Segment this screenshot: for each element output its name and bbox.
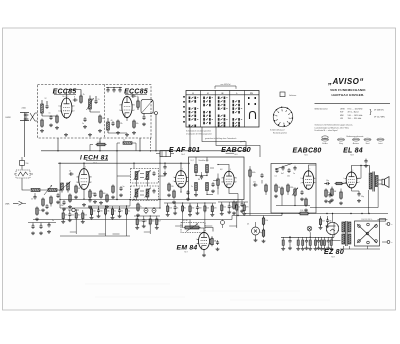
svg-text:47k: 47k [236, 204, 239, 206]
svg-text:0,1: 0,1 [275, 176, 277, 178]
wire vert x60 [59, 163, 61, 208]
push-button switch bank housing [186, 91, 259, 128]
svg-text:Rö 7: Rö 7 [184, 252, 187, 254]
mains terminals [382, 223, 393, 245]
capacitor C91 [260, 173, 263, 183]
ratio det secondary coil [206, 165, 209, 176]
capacitor C23 [93, 192, 97, 203]
resistor R3 (anode load) [80, 90, 85, 104]
oscillator coil L3 [107, 118, 110, 133]
svg-text:I: I [80, 154, 82, 161]
trimmer arrow L2 [87, 98, 94, 110]
cluster (detector load) [218, 201, 248, 228]
mains bottom wire [340, 246, 380, 249]
resistor R5 [116, 120, 123, 135]
ground row tuner [64, 133, 129, 136]
knob legend symbols [321, 136, 384, 145]
junction dots ratio det [195, 175, 218, 189]
svg-text:Band: Band [366, 143, 370, 145]
switch bank caption line2 [186, 133, 212, 136]
resistor R80 [211, 236, 217, 246]
svg-text:7: 7 [236, 182, 237, 184]
svg-text:1: 1 [173, 177, 174, 179]
electrolytic C40 [144, 207, 148, 214]
svg-text:zum UKW-Teil: zum UKW-Teil [220, 84, 231, 86]
cluster (IF decoupling) [134, 215, 161, 234]
resistor R100 [274, 184, 281, 198]
terminal circle (pickup) [68, 208, 79, 211]
B+ bus y163 [58, 162, 190, 164]
mains aerial series part [20, 157, 29, 170]
rotary wafer switch (rear view) [273, 106, 293, 126]
heater winding wire [333, 235, 341, 241]
wire pot out [205, 228, 213, 232]
junction component (x160) [156, 151, 174, 157]
wire switch down [22, 178, 30, 190]
AVC bus y219.5 [33, 219, 232, 221]
AF bus y208 left [60, 207, 160, 209]
svg-text:3n3: 3n3 [322, 221, 325, 223]
svg-text:EABC80: EABC80 [221, 145, 251, 154]
output transformer core [373, 172, 374, 192]
wire EL84 screen [357, 165, 369, 214]
padding capacitor C9 [111, 120, 115, 126]
svg-text:Rö 9: Rö 9 [331, 256, 334, 258]
resistor R6 [137, 97, 140, 111]
resistor R91 [265, 184, 268, 196]
svg-text:Rö 6: Rö 6 [304, 154, 307, 156]
svg-text:10,7: 10,7 [191, 160, 194, 162]
svg-text:6: 6 [74, 106, 75, 108]
cluster (PSU left column) [319, 216, 332, 229]
capacitor C34 [47, 223, 51, 234]
triode system ECC85a [58, 96, 75, 119]
svg-text:100: 100 [152, 221, 155, 223]
terminal circle x222 [221, 220, 225, 229]
tube ECH81 [76, 166, 92, 190]
capacitor C112 [328, 193, 332, 204]
tube label EL84 [343, 147, 363, 156]
RF trim capacitor C1 [45, 98, 49, 109]
svg-text:12k: 12k [265, 220, 268, 222]
junction dots misc [59, 163, 160, 209]
oscillator grid capacitor C10 [131, 93, 136, 98]
screen bypass [88, 198, 92, 209]
svg-text:1: 1 [58, 106, 59, 108]
svg-text:5n: 5n [123, 186, 125, 188]
title rule [315, 102, 391, 104]
wire sub-bus link [281, 214, 283, 216]
svg-text:ZF 10,7 MHz: ZF 10,7 MHz [374, 117, 385, 119]
switch bank contact sets [183, 96, 256, 127]
svg-text:7: 7 [316, 182, 317, 184]
svg-text:6: 6 [316, 178, 317, 180]
svg-text:10n: 10n [93, 211, 96, 213]
svg-text:2k: 2k [83, 94, 85, 96]
resistor R4 [98, 115, 105, 133]
svg-text:ECH 81: ECH 81 [83, 154, 108, 161]
tube label EAF801 [169, 147, 200, 156]
ratio det primary coil [195, 162, 198, 176]
rectifier tube EZ80 (socket view) [326, 213, 339, 235]
svg-text:10n: 10n [65, 215, 68, 217]
padder capacitor C22 [61, 200, 67, 211]
svg-text:MW: MW [340, 115, 344, 117]
frequency range table [315, 108, 385, 121]
svg-text:10n: 10n [326, 180, 329, 182]
ratio det coil D [206, 183, 209, 191]
output transformer secondary [375, 176, 378, 187]
wire terminal drop [155, 115, 157, 151]
resistor R111 [339, 189, 343, 205]
svg-text:5k: 5k [328, 192, 330, 194]
wire antenna down-lead [24, 121, 26, 158]
svg-text:2: 2 [173, 181, 174, 183]
svg-text:8n: 8n [184, 208, 186, 210]
capacitor C33 [39, 224, 43, 235]
B+ sub-bus y215.5 [232, 215, 282, 217]
svg-text:2n: 2n [82, 123, 84, 125]
svg-text:EABC80: EABC80 [292, 147, 321, 154]
svg-text:EZ 80: EZ 80 [324, 249, 344, 256]
tone capacitor C102 [287, 168, 291, 177]
svg-text:Lautstärkeregler auf Maximum,: Lautstärkeregler auf Maximum, 220 V Netz… [315, 126, 350, 129]
svg-text:5k: 5k [121, 211, 123, 213]
svg-text:D1: D1 [247, 224, 249, 226]
resistor R1 [40, 119, 44, 133]
coupling capacitor C110 [324, 180, 330, 185]
resistor R30 [41, 198, 45, 212]
svg-text:220: 220 [214, 208, 217, 210]
tone capacitor C101 [281, 166, 285, 175]
wire switch drop C [216, 127, 260, 157]
svg-text:22k: 22k [120, 123, 123, 125]
svg-text:Drucktaste M — ohne Signal: Drucktaste M — ohne Signal [315, 129, 338, 132]
antenna balun coil [30, 113, 38, 121]
tone potentiometer [292, 188, 298, 197]
svg-text:80: 80 [198, 179, 200, 181]
svg-text:470: 470 [246, 207, 249, 209]
junction dots B+ rail [281, 213, 369, 214]
power transformer core [346, 221, 347, 246]
svg-text:10n: 10n [253, 182, 256, 184]
voltage selector plate [355, 221, 380, 246]
svg-text:4n7: 4n7 [78, 215, 81, 217]
svg-text:3n3: 3n3 [84, 215, 87, 217]
triode system ECC85b [119, 94, 135, 118]
svg-text:1,2k: 1,2k [300, 210, 303, 212]
svg-text:EM 84: EM 84 [177, 244, 198, 251]
component cluster (osc tracking) [61, 209, 87, 234]
resistor R31 [50, 196, 53, 207]
svg-text:200: 200 [191, 208, 194, 210]
wire EAF cathode [180, 187, 181, 192]
loudspeaker [378, 177, 389, 188]
ferrite rod coil LA2 [40, 185, 62, 195]
svg-text:Bedienungselemente: Bedienungselemente [347, 135, 364, 138]
B+ rail y213.5 [245, 213, 388, 215]
tube label EABC80 (ratio det) [221, 145, 251, 156]
svg-text:5k: 5k [177, 208, 179, 210]
svg-text:Gehäuse: Gehäuse [289, 95, 296, 97]
cathode wire ECH81 [82, 189, 86, 206]
svg-text:510 … 1620 kHz: 510 … 1620 kHz [348, 115, 363, 117]
svg-text:VEB FUNKMECHANIK: VEB FUNKMECHANIK [330, 88, 366, 92]
grid capacitor C20 [69, 171, 74, 176]
svg-text:15: 15 [98, 99, 100, 101]
wire EAF801 anode [180, 163, 182, 171]
antenna coupling capacitors [24, 113, 29, 120]
svg-text:Rö 4: Rö 4 [181, 154, 184, 156]
maker line 1 [330, 88, 366, 92]
svg-text:Klang: Klang [339, 143, 343, 145]
wire EM84 feed [190, 220, 196, 229]
tube EL84 [343, 170, 359, 189]
svg-text:100k: 100k [139, 221, 143, 223]
capacitor C50 [163, 163, 167, 175]
svg-text:8: 8 [74, 97, 75, 99]
tube label EABC80 (AF amp) [292, 147, 321, 156]
svg-text:4n7: 4n7 [158, 221, 161, 223]
EABC80a wiring [217, 164, 238, 194]
wire EL84 anode [352, 166, 370, 173]
svg-text:EL 84: EL 84 [343, 147, 363, 154]
wire vert x232 [231, 216, 233, 220]
svg-text:Rö 2: Rö 2 [134, 96, 137, 98]
capacitor C2 [49, 113, 54, 127]
svg-text:30: 30 [131, 93, 133, 95]
svg-text:50µ: 50µ [259, 232, 262, 234]
capacitor C51 [186, 190, 190, 201]
wire ECH81 anode [83, 163, 85, 168]
resistor R20 [74, 185, 81, 199]
svg-text:1k: 1k [39, 210, 41, 212]
tube label EZ80 [324, 249, 344, 258]
svg-text:1: 1 [119, 105, 120, 107]
capacitor C94 [240, 200, 244, 213]
svg-text:40: 40 [111, 120, 113, 122]
tube label EM84 [177, 244, 198, 253]
capacitor C31 [45, 204, 49, 215]
svg-text:12: 12 [45, 98, 47, 100]
shield box label [191, 159, 209, 162]
wire vert x238 [237, 194, 238, 217]
junction dots AF bus [133, 199, 160, 200]
tone capacitor C103 [293, 166, 297, 175]
tuning gang (rotating capacitor) [141, 99, 153, 113]
svg-text:49 m - Band: 49 m - Band [348, 112, 359, 114]
svg-text:12k: 12k [223, 207, 226, 209]
tube EM84 [196, 230, 213, 250]
svg-text:470k: 470k [290, 187, 294, 189]
svg-text:10n: 10n [287, 176, 290, 178]
wire bus163 to T1 [133, 163, 135, 168]
resistor R21 [68, 194, 72, 209]
wire EABC80b anode [309, 165, 317, 171]
component cluster (AM AF filter) [88, 205, 130, 236]
AF box bottom wires [276, 195, 310, 206]
svg-text:110 125 220 V~: 110 125 220 V~ [361, 219, 372, 221]
svg-text:LMK: LMK [5, 204, 10, 206]
wire column x250 [249, 180, 251, 216]
svg-text:4n7: 4n7 [281, 173, 284, 175]
svg-text:1,2k: 1,2k [98, 141, 101, 143]
svg-text:2x: 2x [191, 186, 193, 188]
svg-text:Rö 5: Rö 5 [234, 154, 237, 156]
tube label ECH81 [80, 154, 109, 164]
capacitor C5 [82, 117, 87, 128]
capacitor C80 [216, 240, 220, 251]
dashed dial cord [149, 138, 151, 152]
measurement notes [315, 124, 354, 133]
EM84 wiring [196, 224, 249, 257]
power transformer secondary windings [348, 222, 351, 244]
AF bus y199.5 [60, 199, 188, 201]
wire vert x160 [159, 151, 161, 208]
band switch (dashed) [14, 170, 33, 178]
svg-text:gezeichnet in Stellung ohne Ta: gezeichnet in Stellung ohne Tastendruck [205, 137, 237, 140]
resistor R50 [167, 183, 174, 197]
resistor R7 [132, 120, 139, 135]
svg-text:0,5 M: 0,5 M [183, 220, 188, 222]
ratio det internal wires [191, 157, 222, 195]
svg-text:5k: 5k [238, 207, 240, 209]
switch bank top bracket [215, 84, 236, 89]
svg-text:Rö 8: Rö 8 [350, 154, 353, 156]
rotary switch caption [270, 129, 287, 135]
resistor R94 [232, 201, 239, 215]
svg-text:1k: 1k [145, 221, 147, 223]
resistor R40 [136, 203, 142, 217]
AF stage box [271, 164, 316, 214]
resistor R103 [304, 198, 308, 212]
IF transformer T1 (dashed can) [131, 169, 159, 184]
wire tuner drop x100 [99, 138, 101, 151]
ground rail AM [60, 235, 130, 237]
anode blocking capacitor [364, 159, 368, 168]
paper bleed-through marks [85, 284, 330, 300]
svg-text:87,5 … 100 MHz: 87,5 … 100 MHz [348, 109, 363, 111]
resistor R32 [35, 207, 41, 221]
wire tuner drop x140 [139, 138, 141, 151]
switch bank caption line3 [205, 137, 246, 143]
ratio det cap B [211, 182, 215, 193]
volume potentiometer with mains switch [181, 220, 205, 233]
svg-text:0,1: 0,1 [128, 211, 130, 213]
resistor R41 [111, 185, 115, 199]
svg-text:KW: KW [340, 112, 343, 114]
AM oscillator coils [60, 182, 71, 193]
svg-text:„AVISO“: „AVISO“ [327, 77, 364, 86]
svg-text:1n: 1n [49, 113, 51, 115]
resistor R92 [262, 216, 268, 226]
tube EABC80b [301, 169, 317, 190]
LMK aerial terminal [5, 201, 26, 205]
capacitor C21 [56, 193, 60, 204]
svg-text:2: 2 [58, 111, 59, 113]
resistor R60 [217, 174, 220, 189]
grid capacitor C3 [73, 97, 78, 102]
FM tuner shield box (dashed) [38, 85, 152, 139]
capacitor C104 [300, 190, 304, 201]
capacitor C4 [94, 96, 99, 104]
svg-text:7: 7 [74, 111, 75, 113]
svg-text:ZF 468 kHz: ZF 468 kHz [374, 110, 384, 112]
knob legend caption [347, 135, 364, 138]
wire bus y151 right [190, 150, 247, 151]
trim capacitor C30 [31, 193, 37, 201]
tube EAF801 [173, 169, 190, 189]
capacitor C90 [253, 182, 258, 187]
AM bottom wire [28, 220, 56, 226]
svg-text:E AF 801: E AF 801 [169, 147, 200, 154]
svg-text:150 … 350 kHz: 150 … 350 kHz [348, 118, 362, 120]
decoupling capacitor row C6 C7 C8 [106, 87, 122, 93]
svg-text:6,8: 6,8 [220, 169, 222, 171]
svg-text:150: 150 [26, 163, 29, 165]
negative feedback wire [310, 187, 378, 208]
terminal (dipole out) [155, 112, 158, 115]
ratio det coil C [194, 183, 198, 197]
UKW antenna terminals [6, 108, 30, 121]
svg-text:1k: 1k [140, 206, 142, 208]
svg-text:100: 100 [199, 208, 202, 210]
resistor R24 [105, 194, 109, 209]
capacitor C111 [352, 188, 364, 202]
svg-text:5n: 5n [52, 220, 54, 222]
voltage selector contacts [357, 219, 377, 244]
power transformer primary windings [342, 222, 345, 244]
resistor R110 [330, 187, 337, 202]
svg-text:Gemessen mit Röhrenvoltmeter g: Gemessen mit Röhrenvoltmeter gegen Chass… [315, 124, 354, 127]
svg-text:2: 2 [119, 110, 120, 112]
svg-text:180: 180 [103, 193, 106, 195]
ferrite rod coil LA1 [31, 189, 40, 192]
tube label ECC85 (mixer-osc) [124, 88, 148, 98]
wire T1-T2 links [137, 183, 148, 186]
svg-text:HARTHAU ERZGEB.: HARTHAU ERZGEB. [332, 93, 365, 97]
svg-text:220: 220 [171, 186, 174, 188]
svg-text:10k: 10k [136, 123, 139, 125]
IF transformer T2 (dashed can) [131, 186, 159, 201]
capacitor C42 [119, 186, 124, 197]
anode wire (ECC85a) [67, 90, 82, 99]
svg-text:6: 6 [236, 178, 237, 180]
wire T2 out [159, 171, 166, 176]
svg-text:50µ: 50µ [361, 196, 364, 198]
capacitor C32 [31, 224, 35, 235]
tone capacitor C100 [275, 168, 279, 177]
svg-text:100: 100 [100, 211, 103, 213]
dial lamps [307, 226, 312, 232]
maker line 2 [332, 93, 365, 97]
wire gang to terminal [153, 112, 154, 114]
ratio detector shield box [189, 157, 245, 200]
wire bus y151 [41, 150, 190, 152]
capacitor C11 [142, 113, 146, 126]
ratio det tuning cap A [198, 175, 203, 181]
resistor R93 [262, 224, 266, 243]
resistor R23 [99, 190, 105, 205]
electrolytic C41 [152, 207, 156, 214]
svg-text:100k: 100k [252, 172, 256, 174]
tuner internal wires [42, 112, 127, 133]
switch bank caption line1 [186, 130, 211, 133]
resistor R51 [172, 190, 176, 204]
junction dots bus151 [57, 150, 156, 151]
svg-text:430: 430 [61, 205, 64, 207]
grid stopper resistor [335, 182, 347, 185]
